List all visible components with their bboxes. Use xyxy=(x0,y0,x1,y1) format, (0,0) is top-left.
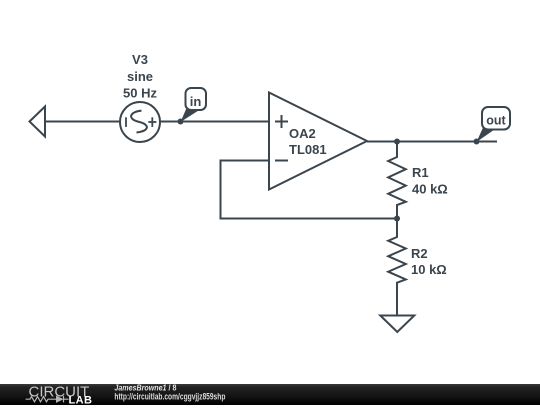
svg-text:V3: V3 xyxy=(132,52,148,67)
svg-text:R2: R2 xyxy=(411,246,428,261)
svg-text:in: in xyxy=(190,94,202,109)
svg-text:R1: R1 xyxy=(412,165,429,180)
svg-text:http://circuitlab.com/cggvjjz8: http://circuitlab.com/cggvjjz859shp xyxy=(114,392,225,403)
svg-text:sine: sine xyxy=(127,69,153,84)
svg-text:LAB: LAB xyxy=(69,394,93,405)
svg-text:out: out xyxy=(486,114,506,128)
svg-text:TL081: TL081 xyxy=(289,142,327,157)
svg-text:50 Hz: 50 Hz xyxy=(123,86,157,101)
svg-text:40 kΩ: 40 kΩ xyxy=(412,182,448,197)
svg-text:OA2: OA2 xyxy=(289,126,316,141)
svg-text:10 kΩ: 10 kΩ xyxy=(411,262,447,277)
